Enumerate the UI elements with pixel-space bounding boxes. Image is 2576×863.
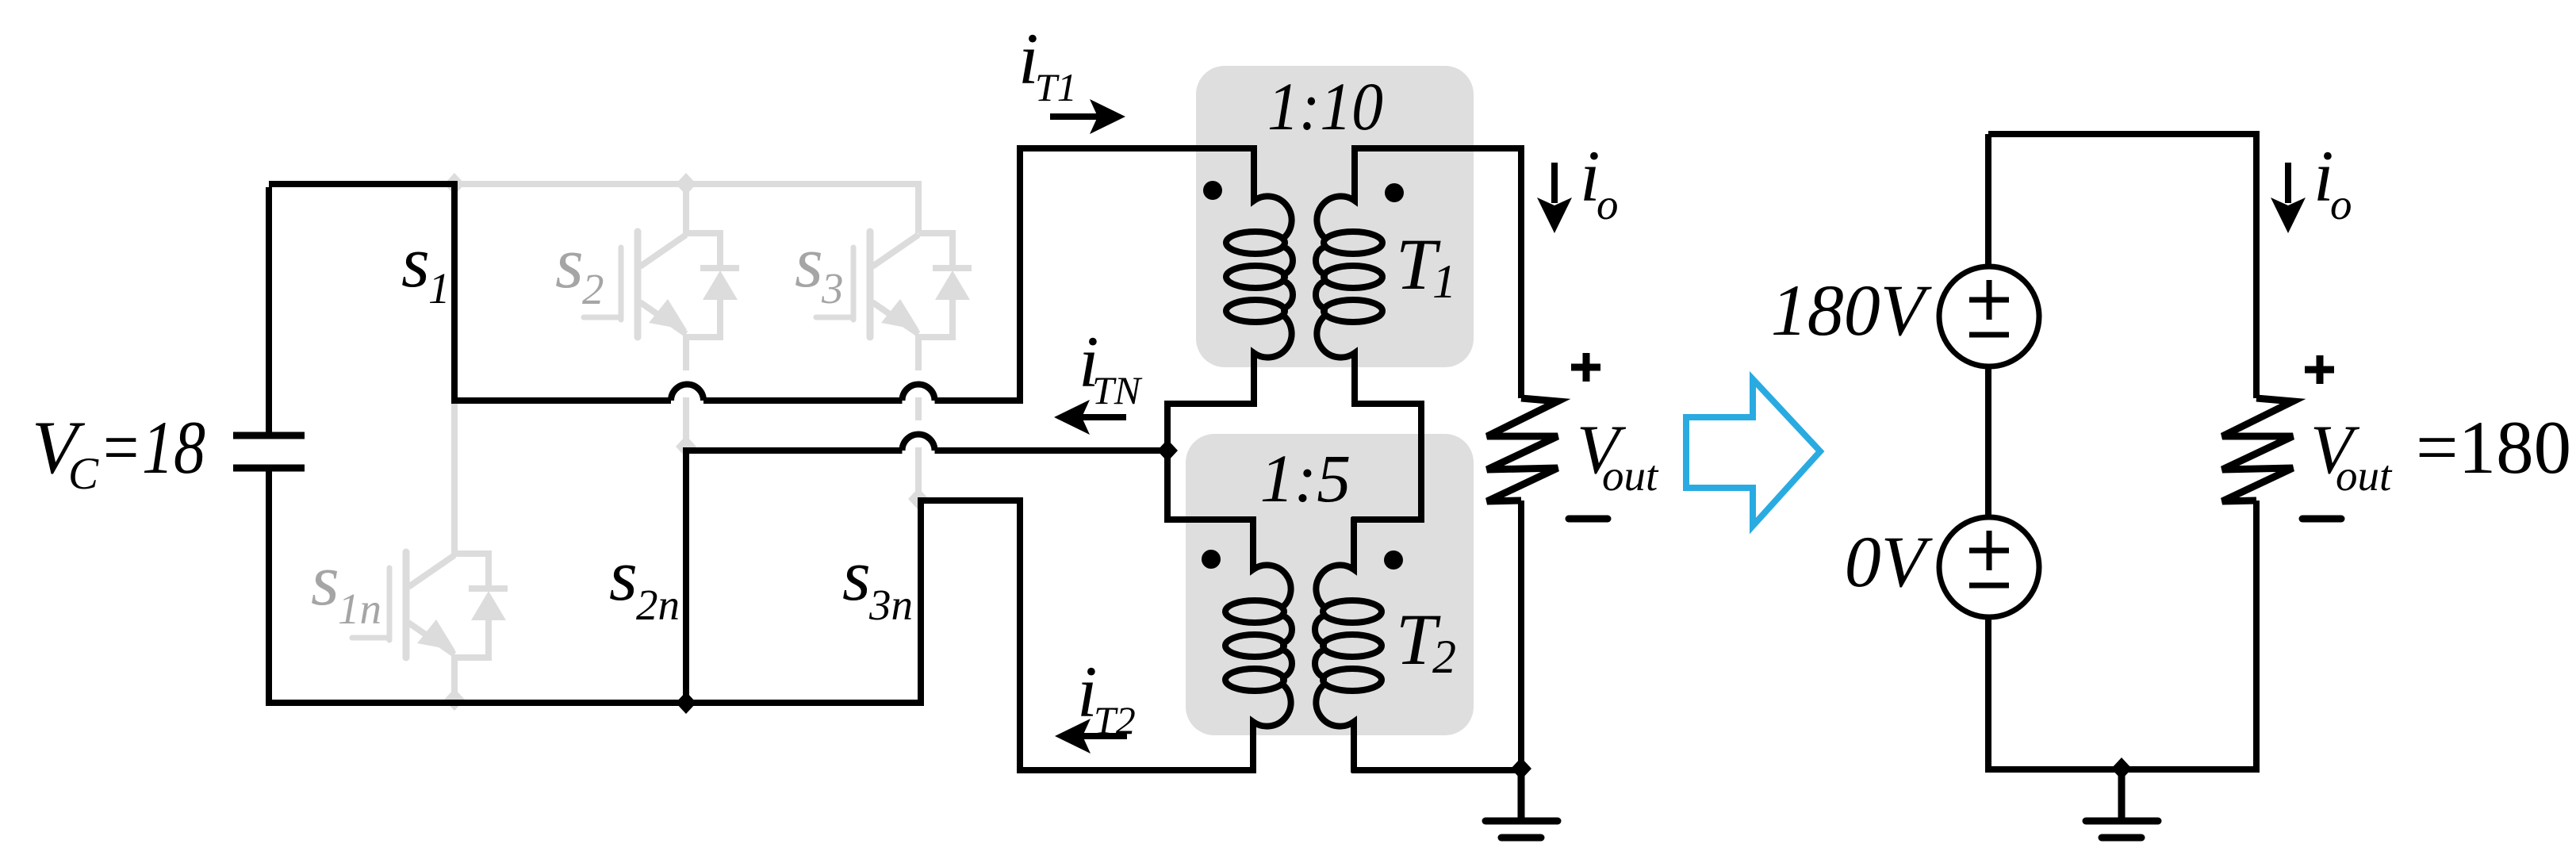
node iTN junction: [1157, 439, 1178, 462]
ground (right): [2086, 769, 2158, 838]
dot T2 secondary: [1384, 550, 1403, 570]
wire T1 secondary bottom to T2 secondary top: [1351, 404, 1421, 520]
wire hop over S3: [903, 385, 935, 401]
wire iTN junction to T2 primary top: [1167, 451, 1256, 520]
transformer T1 primary winding: [1226, 148, 1293, 404]
svg-text:s: s: [842, 535, 871, 616]
wire hop rail2 over S3: [903, 434, 935, 451]
svg-text:s: s: [609, 535, 638, 616]
wire source 180V top: [1985, 134, 1991, 267]
transistor S1n (IGBT): [352, 552, 508, 658]
wire below right resistor: [2253, 501, 2260, 773]
arrow iTN: [1054, 400, 1126, 435]
svg-text:out: out: [2336, 451, 2393, 500]
gray node S3 emitter: [908, 488, 929, 510]
transistor S3 (IGBT): [816, 232, 972, 337]
wire rail2 to iTN junction: [935, 447, 1168, 454]
svg-text:1:5: 1:5: [1260, 440, 1351, 516]
transistor S2 (IGBT): [584, 232, 739, 337]
svg-text:2n: 2n: [636, 581, 680, 629]
svg-text:2: 2: [582, 265, 604, 313]
svg-text:1: 1: [1432, 255, 1456, 308]
resistor Vout (right): [2222, 398, 2293, 501]
svg-text:o: o: [2330, 180, 2352, 228]
wire between sources: [1985, 366, 1991, 517]
gray wire S1n emitter: [451, 654, 458, 700]
svg-text:s: s: [311, 539, 339, 620]
wire iT1 branch up to T1 primary: [1020, 148, 1257, 404]
transformer T1 shaded box: [1196, 66, 1474, 367]
gray node at S2 top: [676, 173, 696, 195]
gray wire S2 collector: [683, 184, 689, 235]
wire top rail right circuit: [1988, 134, 2256, 398]
svg-text:1:10: 1:10: [1267, 68, 1383, 144]
svg-text:T1: T1: [1035, 65, 1077, 109]
wire rail1 mid segment: [703, 397, 903, 404]
svg-text:=180: =180: [2416, 405, 2571, 489]
gray wire S3 emitter: [915, 334, 922, 499]
gray wire S2 emitter: [683, 334, 689, 447]
transformer T2 shaded box: [1186, 434, 1474, 735]
gray node S2 emitter: [676, 435, 696, 458]
svg-text:3n: 3n: [868, 581, 913, 629]
svg-text:1n: 1n: [338, 585, 381, 633]
svg-text:T2: T2: [1094, 698, 1136, 742]
wire hop over S2: [671, 385, 703, 401]
transformer T2 primary winding: [1225, 517, 1292, 773]
wire below left resistor: [1518, 501, 1524, 772]
arrow io left: [1537, 163, 1572, 233]
plus sign right output: [2305, 355, 2334, 384]
dot T2 primary: [1202, 550, 1221, 569]
svg-text:C: C: [68, 449, 99, 499]
wire T1 secondary top to output: [1351, 148, 1521, 398]
gray node S1n emitter: [444, 688, 465, 711]
svg-text:1: 1: [428, 264, 450, 313]
node S2n bottom junction: [676, 692, 696, 714]
arrow iT1: [1050, 99, 1125, 134]
svg-text:s: s: [795, 221, 823, 302]
right equivalent circuit wires: [1988, 134, 2256, 773]
svg-text:180V: 180V: [1771, 270, 1933, 351]
gray node at S1 top: [444, 173, 465, 195]
wire top rail with S1 switch branch: [269, 184, 671, 401]
plus sign left output: [1571, 353, 1600, 382]
wire bottom rail right circuit: [1988, 766, 2256, 773]
wire rail1 right segment: [935, 397, 1021, 404]
svg-text:s: s: [401, 221, 430, 302]
wire S2n branch and rail2: [686, 451, 903, 706]
wire T2 secondary bottom to ground rail: [1351, 767, 1521, 773]
node ground junction right: [2111, 758, 2132, 780]
svg-text:TN: TN: [1092, 368, 1143, 412]
dot T1 primary: [1203, 181, 1222, 200]
resistor Vout (left): [1487, 398, 1558, 501]
wire capacitor bottom: [266, 470, 272, 706]
transformer T1 secondary winding: [1316, 148, 1382, 404]
gray wire S1n collector: [451, 401, 458, 555]
svg-text:o: o: [1597, 180, 1619, 228]
svg-text:=18: =18: [99, 405, 205, 489]
voltage source 180V: [1939, 267, 2039, 366]
cyan equivalence arrow: [1686, 379, 1820, 526]
minus sign right output: [2302, 516, 2341, 523]
svg-text:3: 3: [821, 264, 844, 313]
svg-text:s: s: [555, 222, 584, 303]
node ground junction left: [1511, 758, 1531, 780]
wire bottom rail with S3n branch to T2 primary: [269, 501, 1256, 770]
wire capacitor top: [266, 187, 272, 432]
wire source 0V bottom: [1985, 617, 1991, 773]
svg-text:2: 2: [1432, 631, 1456, 683]
gray top rail from S1 node to S3 collector: [454, 184, 918, 233]
wire iTN junction to T1 primary bottom: [1167, 404, 1257, 451]
dot T1 secondary: [1385, 183, 1404, 202]
white gaps for wire hops: [668, 370, 707, 397]
arrow iT2: [1055, 719, 1127, 754]
capacitor VC plates: [233, 435, 305, 468]
voltage source 0V: [1939, 517, 2039, 617]
ground (left): [1485, 769, 1558, 838]
arrow io right: [2271, 163, 2306, 233]
minus sign left output: [1569, 516, 1608, 523]
svg-text:0V: 0V: [1845, 521, 1934, 602]
transformer T2 secondary winding: [1315, 517, 1382, 773]
svg-text:out: out: [1602, 451, 1659, 500]
